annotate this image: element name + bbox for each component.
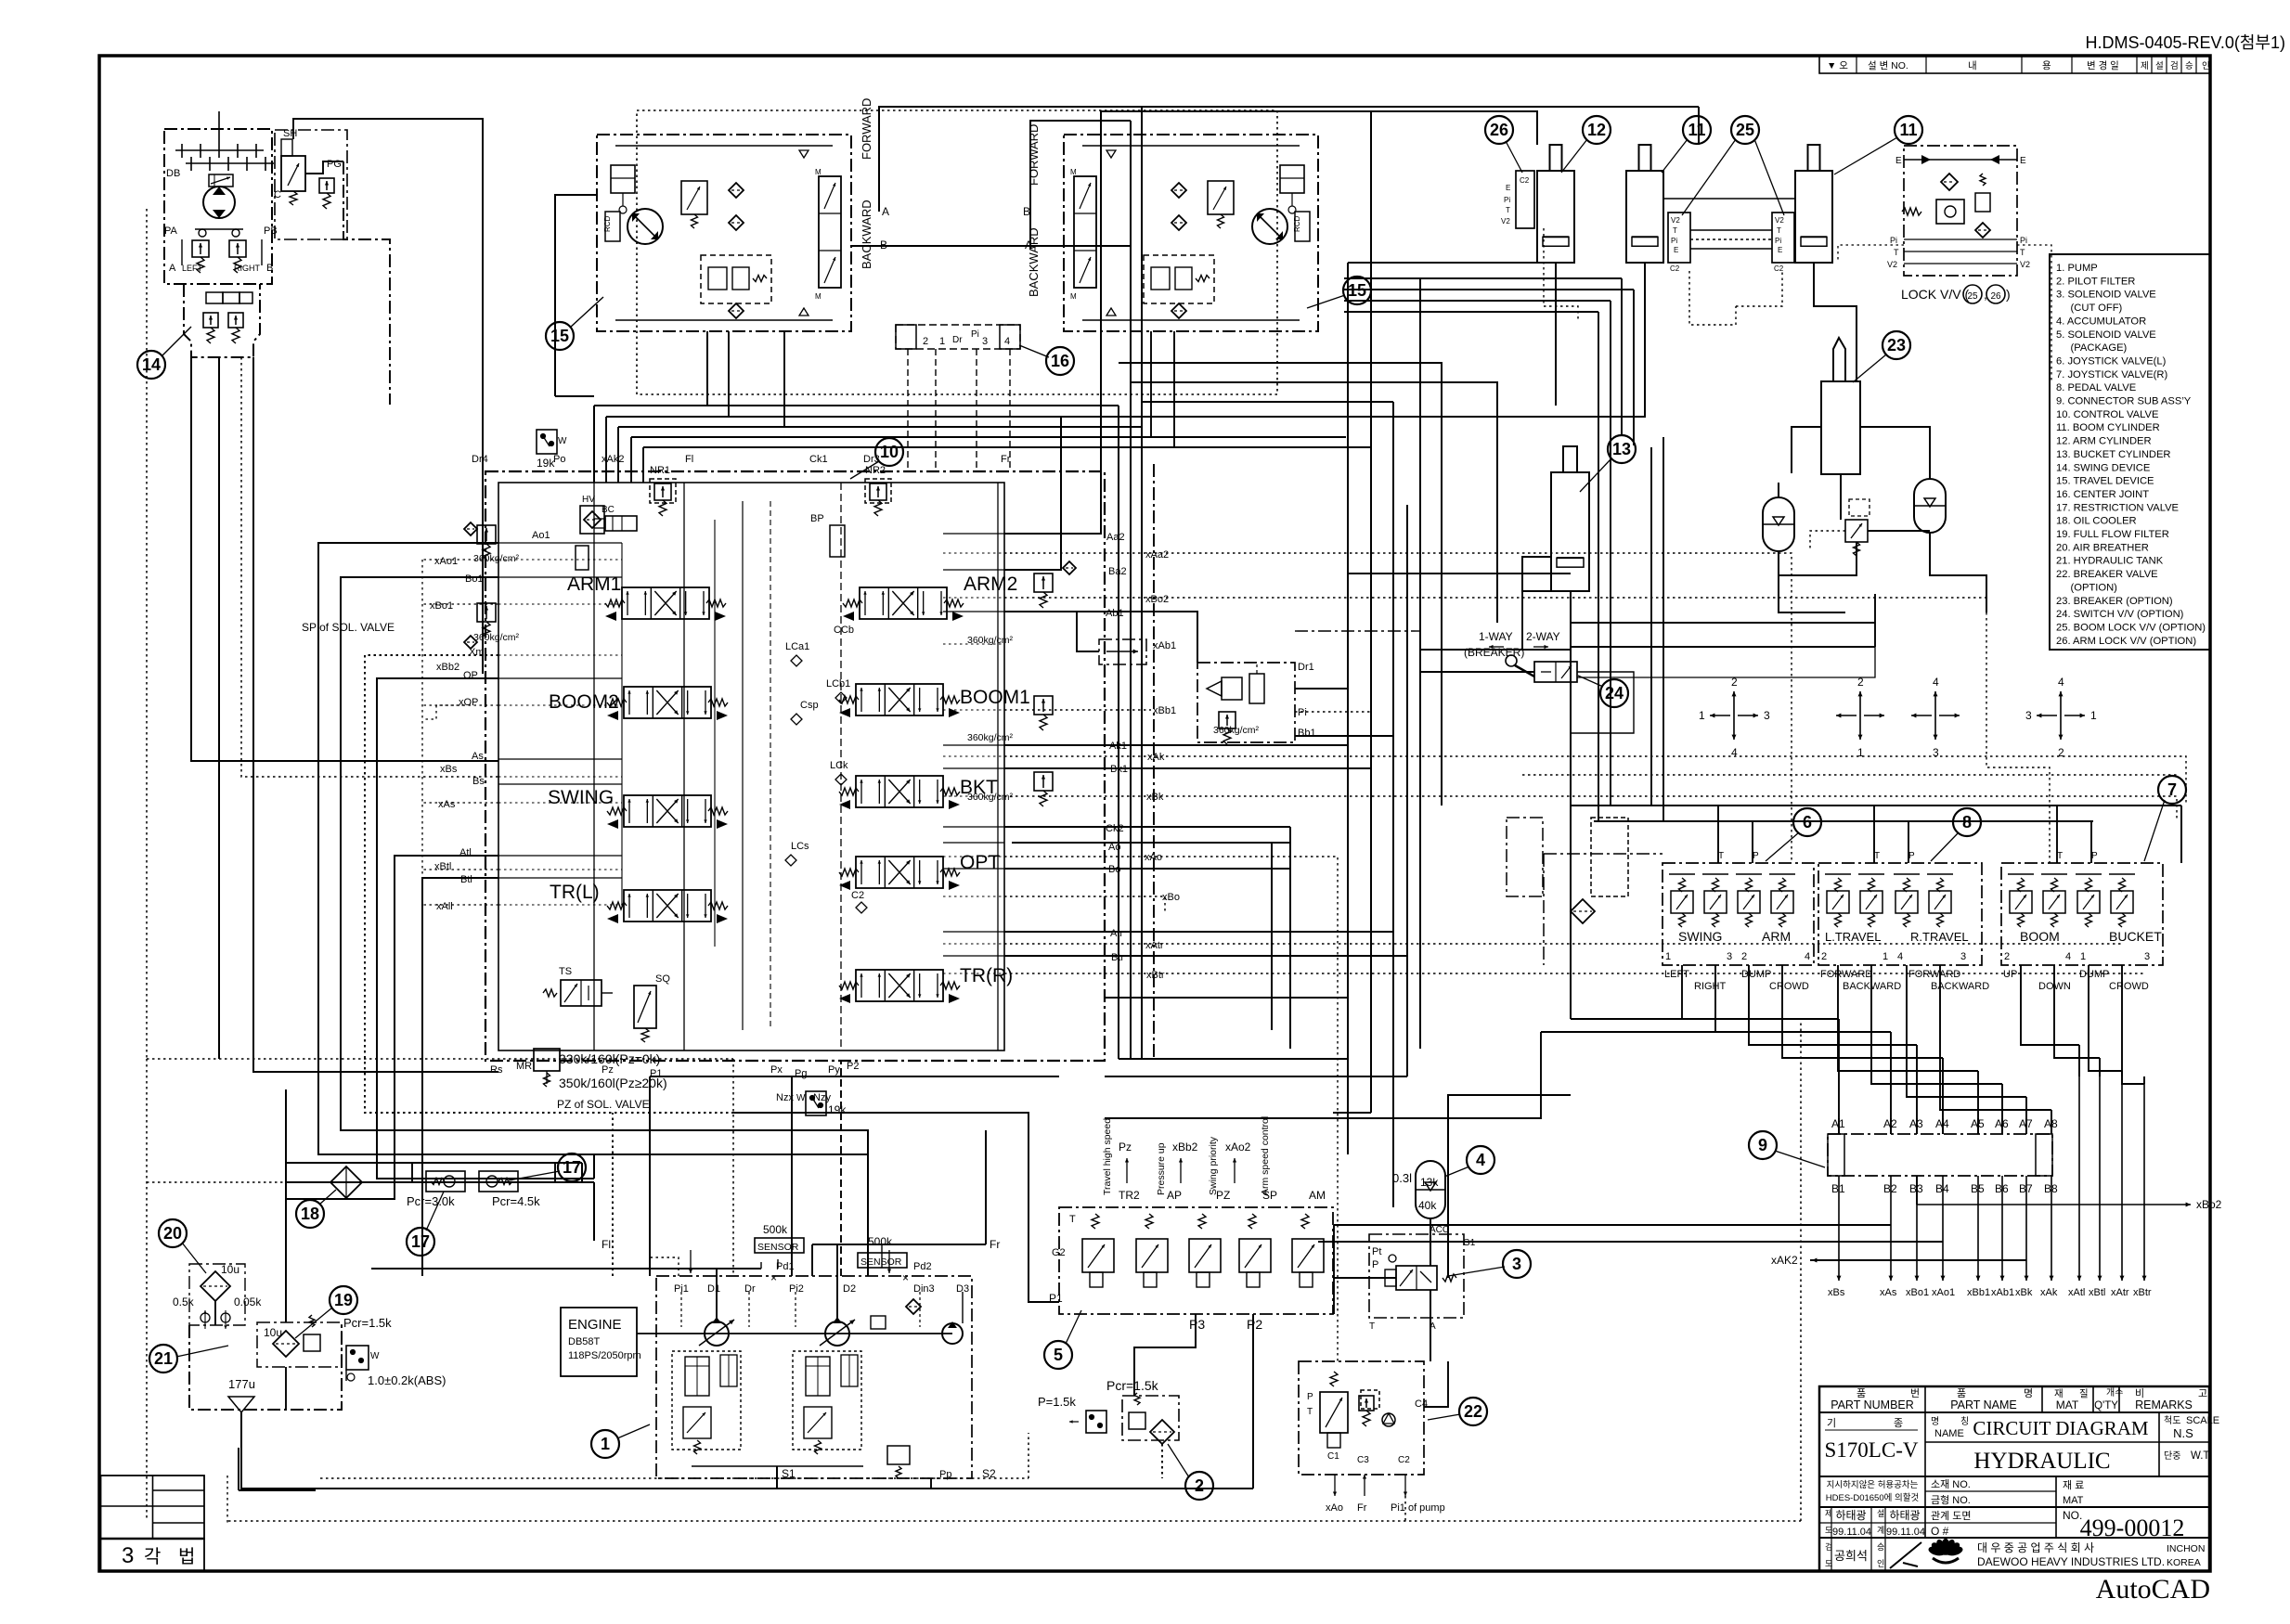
svg-text:SP: SP <box>1262 1189 1277 1202</box>
svg-text:BUCKET: BUCKET <box>2109 929 2162 944</box>
svg-text:23. BREAKER (OPTION): 23. BREAKER (OPTION) <box>2056 596 2173 607</box>
svg-text:DB: DB <box>166 168 180 179</box>
BOOM1 spool <box>839 684 1030 717</box>
HV valve <box>580 506 604 534</box>
svg-text:REMARKS: REMARKS <box>2135 1398 2193 1411</box>
svg-text:1. PUMP: 1. PUMP <box>2056 263 2098 274</box>
svg-text:1: 1 <box>601 1435 610 1453</box>
svg-text:용: 용 <box>2042 60 2051 71</box>
svg-text:W: W <box>796 1093 806 1103</box>
svg-text:HYDRAULIC: HYDRAULIC <box>1973 1449 2110 1474</box>
balloon 13 <box>1608 435 1636 463</box>
svg-text:BC: BC <box>602 505 615 515</box>
wire: swing pilot top <box>305 119 483 674</box>
balloon 6 <box>1793 808 1821 836</box>
svg-text:12: 12 <box>1587 121 1606 139</box>
pilot line xBtr <box>2143 1076 2145 1281</box>
svg-text:C3: C3 <box>1357 1455 1369 1465</box>
travel device 15 right <box>1064 135 1318 331</box>
sensor Fl <box>371 1223 804 1273</box>
svg-text:20. AIR BREATHER: 20. AIR BREATHER <box>2056 542 2149 553</box>
svg-text:360kg/cm²: 360kg/cm² <box>967 635 1014 646</box>
parts list <box>2050 254 2210 650</box>
direction cross 3 <box>1911 676 1960 759</box>
svg-text:BACKWARD: BACKWARD <box>860 200 873 269</box>
wire: pilot route 2177->2240 <box>2021 1012 2079 1045</box>
wire: pilot route 2250->2286 <box>2089 1012 2122 1071</box>
wire: xAa2 dotted <box>1004 553 1792 863</box>
svg-text:Dr1: Dr1 <box>1298 662 1314 673</box>
svg-text:Pi: Pi <box>1671 237 1677 245</box>
wire: pilot route 1884->2065 <box>1749 1012 1917 1045</box>
svg-text:H.DMS-0405-REV.0(첨부1): H.DMS-0405-REV.0(첨부1) <box>2085 33 2285 52</box>
svg-text:xBk: xBk <box>2015 1287 2033 1298</box>
svg-text:PART NUMBER: PART NUMBER <box>1831 1398 1914 1411</box>
svg-text:3: 3 <box>1960 951 1966 962</box>
svg-text:360kg/cm²: 360kg/cm² <box>967 792 1014 803</box>
wire: right bundle verticals <box>1347 263 1349 1154</box>
svg-text:xAo: xAo <box>1326 1502 1343 1514</box>
wire: Ak1 xAk Bk1 xBk runs <box>1004 744 1348 746</box>
svg-text:4: 4 <box>1933 676 1939 689</box>
connector pin line xAb1 <box>2001 1176 2003 1281</box>
BKT spool <box>839 776 998 809</box>
wire: oil cooler line <box>147 1181 286 1183</box>
svg-text:하태광: 하태광 <box>1889 1509 1920 1522</box>
svg-text:25: 25 <box>1736 121 1754 139</box>
balloon 19 <box>330 1286 357 1314</box>
MR main relief <box>516 1049 667 1090</box>
svg-text:W: W <box>370 1351 380 1361</box>
balloon 9 <box>1749 1131 1777 1159</box>
svg-text:OPT: OPT <box>960 852 1000 873</box>
svg-text:9. CONNECTOR SUB ASS’Y: 9. CONNECTOR SUB ASS’Y <box>2056 396 2192 407</box>
svg-text:Bo1: Bo1 <box>465 574 484 585</box>
full flow filter 19 <box>257 1315 392 1367</box>
svg-text:재 료: 재 료 <box>2063 1479 2084 1491</box>
balloon 2 <box>1185 1472 1213 1500</box>
balloon 23 <box>1882 331 1910 359</box>
svg-text:RIGHT: RIGHT <box>1694 981 1727 992</box>
svg-text:xBo2: xBo2 <box>1145 594 1169 605</box>
svg-text:Bb1: Bb1 <box>1298 728 1316 739</box>
direction cross 1 <box>1699 676 1770 759</box>
wire: P1 to package <box>733 1113 1059 1302</box>
svg-text:PZ: PZ <box>1216 1189 1230 1202</box>
pressure switch P=1.5k <box>1038 1395 1106 1433</box>
wire: pilot return dotted <box>1522 774 2177 776</box>
wire: cooler bypass <box>411 1163 413 1182</box>
svg-text:xAk: xAk <box>2040 1287 2058 1298</box>
svg-text:Swing priority: Swing priority <box>1208 1136 1219 1195</box>
boom lock valve 25 right <box>1772 213 1794 273</box>
pilot filter 2 <box>1106 1378 1179 1444</box>
svg-text:V2: V2 <box>2020 260 2030 269</box>
svg-text:25: 25 <box>1967 291 1978 302</box>
svg-text:Atl: Atl <box>459 847 472 858</box>
connector pin line xAs <box>1890 1176 1892 1281</box>
svg-text:(PACKAGE): (PACKAGE) <box>2056 342 2128 354</box>
svg-text:6. JOYSTICK VALVE(L): 6. JOYSTICK VALVE(L) <box>2056 355 2167 367</box>
svg-text:설 변 NO.: 설 변 NO. <box>1868 60 1908 71</box>
svg-text:Fr: Fr <box>990 1238 1000 1251</box>
svg-text:Dr: Dr <box>744 1283 756 1295</box>
svg-text:xAo2: xAo2 <box>1225 1141 1251 1154</box>
svg-text:NR1: NR1 <box>650 465 670 476</box>
svg-text:A: A <box>882 205 889 218</box>
svg-text:R.TRAVEL: R.TRAVEL <box>1910 930 1969 944</box>
svg-text:0.5k: 0.5k <box>173 1295 195 1308</box>
svg-text:P: P <box>1753 851 1759 861</box>
sensor Fr <box>812 1235 1000 1273</box>
svg-text:360kg/cm²: 360kg/cm² <box>1213 725 1260 736</box>
wire: left returns from connector <box>1105 1076 1407 1077</box>
wire: tank connections <box>214 1301 216 1325</box>
breaker valve 22 <box>1299 1361 1445 1514</box>
svg-text:승: 승 <box>2185 61 2193 71</box>
svg-text:xBo2: xBo2 <box>2196 1198 2222 1211</box>
svg-text:FORWARD: FORWARD <box>1908 969 1960 980</box>
svg-text:xAk2: xAk2 <box>602 454 624 465</box>
svg-text:4: 4 <box>1731 746 1738 759</box>
svg-text:T: T <box>1894 248 1899 257</box>
svg-text:Pi: Pi <box>1775 237 1781 245</box>
wire: travel to CV verticals <box>706 331 708 406</box>
wire: NE junction horizontals <box>1119 363 1442 806</box>
svg-text:Travel high speed: Travel high speed <box>1102 1118 1113 1195</box>
svg-text:HV: HV <box>582 495 595 505</box>
svg-text:E: E <box>1895 156 1902 166</box>
svg-text:P2: P2 <box>1247 1317 1262 1332</box>
svg-text:(OPTION): (OPTION) <box>2056 582 2117 593</box>
svg-text:Dr4: Dr4 <box>472 454 488 465</box>
svg-text:TR(L): TR(L) <box>550 882 600 903</box>
wire: bucket cylinder link <box>1420 591 1571 650</box>
svg-text:500k: 500k <box>868 1235 893 1248</box>
wire: joystick output drops <box>1681 965 1683 1012</box>
svg-text:E: E <box>2020 156 2026 166</box>
svg-text:Ck1: Ck1 <box>809 454 828 465</box>
SWING spool <box>548 787 728 829</box>
svg-text:xBtl: xBtl <box>434 861 451 872</box>
svg-text:360kg/cm²: 360kg/cm² <box>473 632 520 643</box>
svg-text:Arm speed control: Arm speed control <box>1260 1116 1271 1195</box>
svg-text:BOOM1: BOOM1 <box>960 687 1030 708</box>
restriction valve 17 a <box>407 1171 465 1208</box>
solenoid valve SH <box>275 119 347 239</box>
svg-text:V2: V2 <box>1775 216 1784 225</box>
svg-text:xOP: xOP <box>459 697 478 708</box>
boom cylinder 11 right <box>1795 171 1832 263</box>
wire: switch valve outlet <box>1577 647 1875 677</box>
wire: xBo2 dotted <box>1004 598 2050 863</box>
svg-text:9: 9 <box>1758 1136 1767 1154</box>
svg-text:DAEWOO HEAVY INDUSTRIES LTD: DAEWOO HEAVY INDUSTRIES LTD. <box>1977 1555 2165 1568</box>
svg-text:RCD: RCD <box>603 215 612 232</box>
wire: CV top nest lines <box>594 405 1119 406</box>
joystick valve 7 (boom/bucket) <box>2001 851 2163 965</box>
svg-text:C2: C2 <box>1520 176 1530 185</box>
svg-text:C4: C4 <box>1415 1398 1428 1410</box>
svg-text:10u: 10u <box>221 1263 239 1276</box>
wire: pilot route 2286->2310 <box>2122 1012 2144 1084</box>
balloon 8 <box>1953 808 1981 836</box>
ARM1 port relief B <box>464 603 520 649</box>
svg-text:내: 내 <box>1968 60 1977 71</box>
svg-text:3: 3 <box>1764 709 1770 722</box>
svg-text:0.05k: 0.05k <box>234 1295 262 1308</box>
svg-text:8. PEDAL VALVE: 8. PEDAL VALVE <box>2056 382 2136 393</box>
control valve internal port lines <box>498 542 622 544</box>
boom lock valve 25 left <box>1668 213 1690 273</box>
wire: xBo dotted elbow <box>1004 896 1165 914</box>
wire: cylinder bundle horizontals <box>1344 277 1622 279</box>
svg-text:18. OIL COOLER: 18. OIL COOLER <box>2056 516 2137 527</box>
svg-text:FORWARD: FORWARD <box>860 98 873 160</box>
wire: pilot route 1848->2037 <box>1715 1012 1891 1032</box>
svg-text:(CUT OFF): (CUT OFF) <box>2056 303 2123 314</box>
switch valve 24 <box>1464 630 1577 682</box>
NR1 relief <box>650 465 676 516</box>
svg-text:Pz: Pz <box>1119 1141 1132 1154</box>
direction cross 2 <box>1836 676 1884 759</box>
tank pressure switch <box>346 1346 446 1387</box>
svg-text:2: 2 <box>923 336 928 347</box>
svg-text:Pd2: Pd2 <box>913 1261 932 1272</box>
svg-text:INCHON: INCHON <box>2167 1543 2205 1554</box>
svg-text:명: 명 <box>2024 1387 2033 1399</box>
svg-text:PART NAME: PART NAME <box>1950 1398 2017 1411</box>
svg-text:고: 고 <box>2198 1388 2207 1399</box>
svg-text:E: E <box>1506 184 1510 192</box>
svg-text:3. SOLENOID VALVE: 3. SOLENOID VALVE <box>2056 290 2156 301</box>
svg-text:Pt: Pt <box>1372 1246 1381 1257</box>
svg-text:LEFT: LEFT <box>1664 969 1689 980</box>
svg-text:xBo1: xBo1 <box>430 600 453 612</box>
wire: P3 P2 drops <box>1134 1314 1196 1396</box>
svg-text:E: E <box>1674 246 1678 254</box>
balloon 20 <box>159 1219 187 1247</box>
wire: Ab1 run <box>1004 612 1197 663</box>
svg-text:360kg/cm²: 360kg/cm² <box>473 553 520 564</box>
anti drift valve block <box>1197 662 1316 744</box>
svg-text:P2: P2 <box>847 1061 859 1072</box>
svg-text:P3: P3 <box>1189 1317 1205 1332</box>
wire: accumulator base link <box>1779 551 1845 612</box>
svg-text:1: 1 <box>939 336 945 347</box>
svg-text:16. CENTER JOINT: 16. CENTER JOINT <box>2056 489 2149 500</box>
svg-text:15: 15 <box>550 327 569 345</box>
wire: lock legend links <box>1838 245 1904 263</box>
svg-text:3: 3 <box>2025 709 2032 722</box>
svg-text:DUMP: DUMP <box>2079 969 2109 980</box>
svg-text:기: 기 <box>1827 1417 1836 1429</box>
control valve internal frame <box>498 483 1004 1050</box>
svg-text:40k: 40k <box>1418 1199 1437 1212</box>
svg-text:Ab1: Ab1 <box>1106 608 1124 619</box>
balloon 26 <box>1485 116 1513 144</box>
svg-text:15. TRAVEL DEVICE: 15. TRAVEL DEVICE <box>2056 476 2154 487</box>
svg-text:xAa2: xAa2 <box>1145 549 1169 561</box>
wire: bus left extensions <box>1571 1018 1682 1020</box>
accumulator left <box>1763 513 1794 535</box>
wire: connector pin stubs <box>1838 1118 1840 1134</box>
svg-text:25. BOOM LOCK V/V (OPTION): 25. BOOM LOCK V/V (OPTION) <box>2056 622 2206 633</box>
svg-text:xAo1: xAo1 <box>434 556 458 567</box>
svg-text:3: 3 <box>1933 746 1939 759</box>
svg-text:499-00012: 499-00012 <box>2080 1514 2185 1541</box>
svg-text:Pi: Pi <box>1298 707 1307 718</box>
balloon 24 <box>1600 679 1628 707</box>
svg-text:P: P <box>2091 851 2098 861</box>
svg-text:Q'TY: Q'TY <box>2094 1400 2118 1411</box>
connector pin line xAk <box>2051 1176 2052 1281</box>
wire: bottom dotted bus <box>228 1520 1801 1522</box>
svg-text:BP: BP <box>810 513 824 524</box>
balloon 11 left <box>1683 116 1711 144</box>
svg-text:BOOM2: BOOM2 <box>549 691 619 713</box>
svg-text:단중: 단중 <box>2164 1450 2180 1462</box>
svg-text:C2: C2 <box>851 890 864 901</box>
svg-text:Fl: Fl <box>602 1238 611 1251</box>
boom cylinder 11 left <box>1626 171 1663 263</box>
wire: CV bottom to package <box>650 1076 1059 1077</box>
svg-text:G2: G2 <box>1052 1247 1066 1258</box>
svg-text:13. BUCKET CYLINDER: 13. BUCKET CYLINDER <box>2056 449 2171 460</box>
svg-text:LCk: LCk <box>830 760 848 771</box>
air breather 20 <box>173 1263 262 1329</box>
svg-text:V2: V2 <box>1671 216 1680 225</box>
wire: breaker valve to breaker <box>1424 1361 1448 1407</box>
svg-text:Nzy: Nzy <box>813 1092 831 1103</box>
svg-text:O #: O # <box>1931 1525 1949 1538</box>
svg-text:KOREA: KOREA <box>2167 1557 2201 1568</box>
svg-text:2: 2 <box>1821 951 1827 962</box>
svg-text:Aa2: Aa2 <box>1106 532 1125 543</box>
svg-text:×: × <box>902 1271 909 1284</box>
svg-text:xBtr: xBtr <box>1146 970 1165 981</box>
xAK2 outlet <box>1812 1259 1847 1261</box>
svg-text:Pz: Pz <box>602 1064 614 1076</box>
svg-text:xBb1: xBb1 <box>1967 1287 1990 1298</box>
svg-text:1: 1 <box>1882 951 1888 962</box>
wire: pilot route 1980->2131 <box>1838 1012 1978 1071</box>
balloon 5 <box>1044 1341 1072 1369</box>
svg-text:Pg: Pg <box>795 1068 807 1079</box>
svg-text:T: T <box>1506 206 1510 214</box>
svg-text:ACC: ACC <box>1430 1225 1449 1235</box>
svg-text:TR2: TR2 <box>1119 1189 1140 1202</box>
balloon 4 <box>1467 1146 1494 1174</box>
package signal labels <box>1102 1116 1326 1202</box>
svg-text:TS: TS <box>559 966 572 977</box>
balloon 21 <box>149 1345 177 1373</box>
wire: Atr xAtr Btr xBtr runs <box>1004 931 1393 933</box>
svg-text:Pi: Pi <box>2020 236 2027 245</box>
svg-text:11: 11 <box>1688 121 1705 139</box>
direction cross 4 <box>2025 676 2097 759</box>
svg-text:SWING: SWING <box>548 787 614 808</box>
svg-text:D2: D2 <box>843 1283 856 1295</box>
svg-text:xBb2: xBb2 <box>436 662 459 673</box>
svg-text:설: 설 <box>1877 1509 1884 1518</box>
svg-text:MR: MR <box>516 1061 532 1072</box>
svg-text:DUMP: DUMP <box>1741 969 1771 980</box>
svg-text:인: 인 <box>2202 61 2210 71</box>
svg-text:AutoCAD: AutoCAD <box>2096 1574 2210 1605</box>
svg-text:V2: V2 <box>1501 217 1510 226</box>
svg-text:26. ARM LOCK V/V (OPTION): 26. ARM LOCK V/V (OPTION) <box>2056 636 2196 647</box>
svg-text:xAo1: xAo1 <box>1932 1287 1955 1298</box>
svg-text:xAb1: xAb1 <box>1991 1287 2014 1298</box>
svg-text:2-WAY: 2-WAY <box>1526 630 1560 643</box>
svg-text:M: M <box>1070 168 1077 176</box>
title block <box>1819 1386 2219 1571</box>
travel device 15 left <box>597 135 851 331</box>
svg-text:B: B <box>1023 205 1030 218</box>
svg-text:xBtr: xBtr <box>2133 1287 2152 1298</box>
revision table header <box>1819 56 2210 73</box>
pump relief Pp <box>887 1446 910 1464</box>
svg-text:P=1.5k: P=1.5k <box>1038 1395 1076 1409</box>
svg-text:AP: AP <box>1167 1189 1182 1202</box>
svg-text:2. PILOT FILTER: 2. PILOT FILTER <box>2056 276 2135 287</box>
lock valve legend box <box>1887 146 2030 303</box>
svg-text:xAs: xAs <box>1880 1287 1897 1298</box>
svg-text:인: 인 <box>1877 1559 1884 1568</box>
svg-text:5: 5 <box>1054 1346 1063 1364</box>
svg-text:RIGHT: RIGHT <box>234 264 261 273</box>
svg-text:승: 승 <box>1877 1542 1884 1552</box>
balloon 15 right <box>1343 277 1371 304</box>
wire: lower cross links <box>1119 1058 1348 1060</box>
pilot line xAtr <box>2121 1076 2123 1281</box>
svg-text:23: 23 <box>1887 336 1906 354</box>
svg-text:Ck2: Ck2 <box>1106 823 1124 834</box>
svg-text:xAs: xAs <box>438 799 456 810</box>
svg-text:Px: Px <box>770 1064 783 1076</box>
svg-text:DB58T: DB58T <box>568 1336 601 1347</box>
wire: Aa2 run <box>1004 111 1537 534</box>
svg-text:26: 26 <box>1990 291 2001 302</box>
oil cooler 18 <box>330 1166 362 1198</box>
pilot line xBtl <box>2099 1076 2101 1281</box>
accumulator right <box>1914 495 1946 517</box>
balloon 22 <box>1459 1398 1487 1425</box>
wire: anti-drift dash-dot long run <box>1295 630 1420 632</box>
svg-text:3: 3 <box>1727 951 1732 962</box>
ARM1 spool <box>567 574 726 621</box>
svg-text:1: 1 <box>2090 709 2097 722</box>
svg-text:검: 검 <box>2170 60 2179 71</box>
svg-text:360kg/cm²: 360kg/cm² <box>967 732 1014 743</box>
svg-text:Fr: Fr <box>1357 1502 1367 1514</box>
wire: cylinder feeds <box>1555 263 1557 406</box>
svg-text:18: 18 <box>301 1205 319 1223</box>
svg-text:2: 2 <box>2058 746 2064 759</box>
svg-text:제: 제 <box>1825 1509 1832 1518</box>
balloon 1 <box>591 1430 619 1458</box>
svg-text:20: 20 <box>163 1224 182 1243</box>
center joint 16 <box>896 325 1020 349</box>
svg-text:Pcr=1.5k: Pcr=1.5k <box>343 1316 392 1330</box>
svg-text:SWING: SWING <box>1678 929 1722 944</box>
svg-text:13k: 13k <box>1420 1176 1439 1189</box>
svg-text:L.TRAVEL: L.TRAVEL <box>1825 930 1881 944</box>
accumulator 4 <box>1392 1161 1445 1218</box>
svg-text:칭: 칭 <box>1960 1416 1969 1427</box>
svg-text:xBb1: xBb1 <box>1153 705 1176 716</box>
